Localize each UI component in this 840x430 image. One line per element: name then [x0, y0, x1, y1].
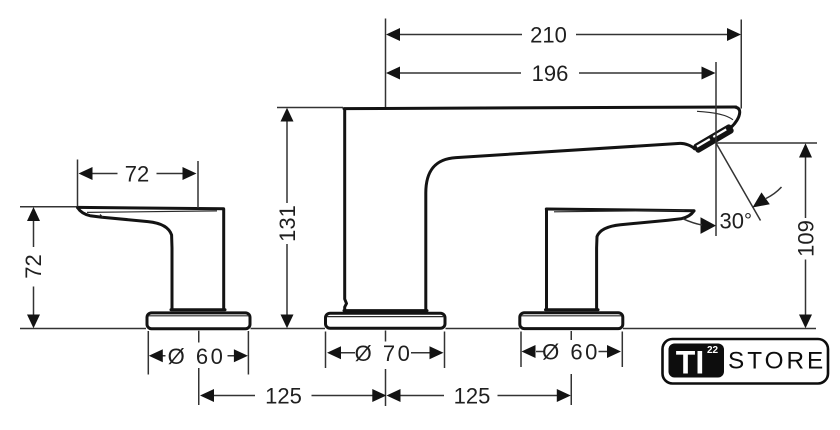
left handle under edge: [78, 208, 173, 309]
left handle stem bottom cap: [171, 308, 225, 311]
dimension 72 height arrows: [27, 207, 40, 328]
dimension 210 line: [400, 34, 727, 36]
dimension 131 line: [286, 122, 288, 315]
dimension 72 height top extension: [20, 206, 77, 208]
diameter 60 left arrows: [149, 349, 248, 362]
TI STORE logo outer box: [663, 339, 829, 384]
dimension 109 top reference line: [716, 142, 817, 144]
diameter 70 arrows: [327, 346, 444, 359]
spout stem bottom cap: [344, 309, 427, 312]
right handle stem bottom cap: [546, 308, 599, 311]
right base inner line: [521, 315, 621, 317]
svg-text:109: 109: [794, 220, 819, 257]
spout underside / riser right edge: [426, 143, 695, 310]
spout top edge: [344, 107, 736, 109]
baseline (counter surface): [20, 328, 816, 330]
left handle top edge: [78, 207, 224, 208]
svg-text:125: 125: [454, 384, 491, 409]
svg-text:210: 210: [530, 23, 567, 48]
dimension 72 width arrows: [79, 167, 197, 180]
diameter 60 right arrows: [522, 345, 622, 358]
spout centerline: [385, 331, 387, 407]
dimension 210 extension line left: [385, 19, 387, 108]
30 degree arrow at slant: [753, 192, 770, 207]
spout nose inner line: [697, 111, 733, 120]
dimension 125 right line: [401, 395, 558, 397]
svg-text:22: 22: [707, 345, 719, 356]
diameter 60 right extension lines: [521, 332, 622, 368]
svg-text:STORE: STORE: [728, 348, 826, 375]
left handle top face inner line: [87, 211, 217, 213]
left handle right edge: [222, 209, 225, 309]
svg-text:72: 72: [21, 254, 46, 278]
30 degree arrow at vertical: [701, 217, 717, 234]
left base inner line: [149, 315, 250, 317]
diameter 60 left line: [163, 355, 235, 357]
svg-text:196: 196: [532, 61, 569, 86]
dimension 131 top extension: [277, 107, 343, 109]
aerator tip band: [692, 123, 734, 154]
spout left edge: [345, 109, 347, 310]
dimension 210 extension line right: [740, 20, 742, 109]
right handle left edge: [545, 209, 548, 309]
left handle base escutcheon: [147, 313, 250, 329]
svg-text:131: 131: [275, 205, 300, 242]
right centerline: [570, 331, 572, 405]
dimension 125 left arrows: [200, 389, 386, 402]
diameter 60 right line: [536, 351, 607, 353]
30 degree slanted line: [716, 143, 761, 221]
diameter 60 left extension lines: [148, 331, 248, 375]
dimension 109 arrows: [799, 143, 812, 328]
dimension 196 arrows: [386, 67, 716, 80]
spout nose curve: [731, 107, 740, 128]
dimension 72 width extension lines: [78, 160, 199, 209]
30 degree leader from handle tip: [683, 219, 702, 225]
dimension 125 right arrows: [387, 389, 571, 402]
svg-text:Ø 70: Ø 70: [355, 341, 413, 366]
diameter 70 extension lines: [326, 332, 445, 369]
30 degree leader upper: [766, 187, 782, 199]
dimension 125 left line: [214, 395, 373, 397]
spout base inner line: [327, 316, 444, 318]
TI STORE logo black badge: [669, 344, 725, 378]
svg-text:TI: TI: [676, 345, 704, 381]
svg-text:30°: 30°: [720, 209, 752, 234]
right handle under edge: [597, 211, 694, 309]
right handle base escutcheon: [520, 313, 623, 329]
dimension 210 arrows: [386, 28, 741, 41]
svg-text:72: 72: [125, 162, 149, 187]
dimension 196 line: [400, 72, 702, 74]
30 degree vertical reference: [715, 143, 717, 236]
dimension 72 height line: [33, 221, 35, 315]
spout base escutcheon: [326, 313, 446, 328]
svg-text:Ø 60: Ø 60: [168, 344, 226, 369]
left centerline: [198, 331, 200, 405]
left handle seam nick: [100, 215, 103, 218]
diameter 70 line: [341, 352, 430, 354]
dimension 109 line: [805, 158, 807, 315]
right handle top edge: [546, 209, 694, 211]
right handle top face inner line: [554, 210, 685, 211]
dimension 196 extension line right: [715, 62, 717, 143]
dimension 131 arrows: [281, 108, 294, 328]
svg-text:Ø 60: Ø 60: [542, 340, 600, 365]
dimension 72 width line: [93, 173, 183, 175]
svg-text:125: 125: [265, 384, 302, 409]
